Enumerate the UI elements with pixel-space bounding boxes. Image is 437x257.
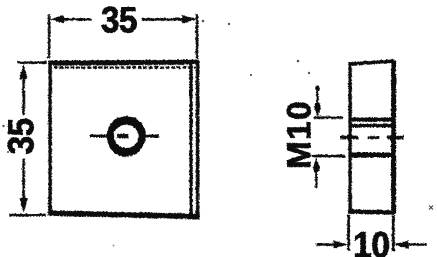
bottom dimension 10: dimension line with arrows xyxy=(316,240,426,248)
left dimension 35: dimension line with arrows xyxy=(19,64,27,213)
left dimension 35: extension lines xyxy=(9,62,46,215)
svg-text:10: 10 xyxy=(353,225,390,257)
hole circle (front view) xyxy=(110,119,142,151)
top dimension 35: extension lines xyxy=(49,14,197,59)
front view plate outline xyxy=(48,61,200,217)
side view outline xyxy=(348,60,395,214)
svg-text:35: 35 xyxy=(101,1,137,41)
M10 dimension: extension lines xyxy=(311,117,345,156)
hole centerline (front view) xyxy=(90,134,159,137)
M10 dimension: dimension line with arrows xyxy=(312,85,321,188)
svg-text:M10: M10 xyxy=(280,100,317,169)
bottom dimension 10: extension lines xyxy=(348,214,393,251)
top dimension 35: dimension line with arrows xyxy=(49,15,197,23)
side view hole centerline xyxy=(340,134,404,140)
side view thread/hole lines xyxy=(349,119,395,155)
svg-text:35: 35 xyxy=(2,118,42,154)
